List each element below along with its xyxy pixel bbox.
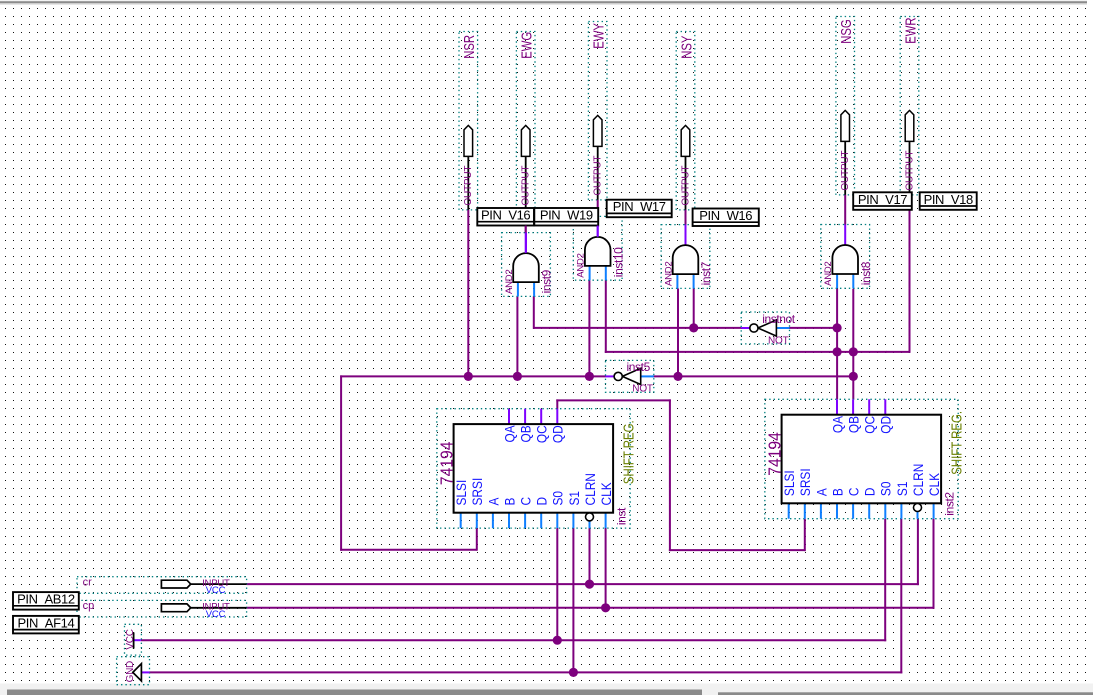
svg-text:S1: S1 (894, 482, 910, 497)
svg-text:QD: QD (550, 425, 566, 443)
svg-text:GND: GND (125, 661, 136, 682)
GND ground symbol (117, 657, 150, 685)
svg-text:QC: QC (534, 425, 550, 443)
wire net-A left drop (340, 375, 477, 550)
pin assignment label PIN_V17 (853, 192, 912, 210)
wire inst7.in2 drop (693, 289, 695, 328)
svg-text:QD: QD (878, 416, 894, 434)
pin assignment label PIN_AB12 (13, 592, 79, 610)
svg-text:PIN_V18: PIN_V18 (924, 192, 973, 207)
svg-text:CLK: CLK (598, 482, 614, 505)
output pin NSG (836, 17, 855, 195)
output pin NSR (459, 32, 478, 210)
svg-text:NSG: NSG (838, 19, 855, 44)
svg-text:cp: cp (83, 600, 95, 612)
junction at 589.5,584.1 (585, 580, 594, 589)
junction at 605.6,607.8 (601, 603, 610, 612)
svg-text:NSY: NSY (678, 35, 695, 59)
wire instnot.in (790, 327, 838, 329)
svg-text:PIN_V16: PIN_V16 (481, 208, 530, 223)
junction at 678.0,376.4 (673, 372, 682, 381)
svg-text:PIN_W16: PIN_W16 (699, 208, 752, 223)
svg-text:AND2: AND2 (576, 253, 587, 278)
svg-text:AND2: AND2 (504, 269, 515, 294)
svg-text:inst9: inst9 (540, 269, 554, 293)
svg-text:instnot: instnot (762, 312, 796, 326)
svg-text:OUTPUT: OUTPUT (904, 151, 915, 191)
svg-text:A: A (485, 497, 501, 505)
output pin EWG (516, 32, 535, 210)
pin assignment label PIN_V16 (477, 208, 534, 226)
svg-text:NOT: NOT (632, 384, 653, 395)
svg-text:OUTPUT: OUTPUT (463, 166, 474, 206)
svg-text:PIN_AB12: PIN_AB12 (17, 592, 75, 607)
svg-text:AND2: AND2 (663, 261, 674, 286)
pin assignment label PIN_W17 (607, 199, 672, 217)
svg-text:PIN_AF14: PIN_AF14 (18, 615, 75, 630)
output pin EWY (588, 22, 607, 200)
svg-text:VCC: VCC (206, 609, 226, 620)
wire cp line (247, 519, 935, 609)
AND gate inst7 (661, 225, 713, 289)
wire left CLRN drop (589, 528, 591, 584)
svg-text:inst5: inst5 (627, 360, 651, 374)
wire inst9.in1 drop (516, 296, 518, 376)
svg-text:OUTPUT: OUTPUT (593, 156, 604, 196)
wire net-C horizontal y328 (534, 327, 741, 329)
74194 shift register inst2 (765, 399, 965, 518)
svg-text:SHIFT REG.: SHIFT REG. (620, 420, 637, 484)
74194 shift register inst (437, 409, 637, 528)
svg-text:SRSI: SRSI (797, 468, 813, 496)
bottom scrollbar band (0, 684, 1093, 696)
pin assignment label PIN_V18 (920, 192, 977, 210)
svg-text:inst10: inst10 (611, 247, 625, 277)
svg-text:VCC: VCC (125, 629, 136, 649)
NOT gate instnot (741, 312, 796, 347)
svg-text:OUTPUT: OUTPUT (680, 166, 691, 206)
junction at 693.7,327.9 (689, 323, 698, 332)
junction at 837.1,351.9 (833, 347, 842, 356)
junction at 853.3,376.4 (849, 372, 858, 381)
svg-text:OUTPUT: OUTPUT (840, 151, 851, 191)
NOT gate inst5 (606, 360, 654, 395)
svg-text:inst8: inst8 (859, 261, 873, 285)
svg-text:NOT: NOT (768, 335, 789, 346)
svg-text:VCC: VCC (206, 585, 226, 596)
wire EWY vertical (597, 200, 599, 217)
svg-text:D: D (862, 487, 878, 496)
wire net-B horizontal y376 (653, 375, 854, 377)
svg-text:inst2: inst2 (943, 492, 957, 516)
junction at 557.3,640.2 (553, 636, 562, 645)
junction at 468.3,376.4 (464, 372, 473, 381)
wire NSR vertical (467, 210, 469, 377)
svg-text:B: B (829, 488, 845, 496)
svg-text:S0: S0 (550, 491, 566, 506)
svg-text:EWG: EWG (518, 32, 535, 59)
wire EWG vertical (525, 226, 527, 234)
svg-text:cr: cr (83, 576, 93, 588)
wire left S1 drop (572, 528, 574, 672)
AND gate inst10 (573, 216, 625, 280)
wire vcc line (141, 519, 886, 642)
svg-text:AND2: AND2 (823, 261, 834, 286)
svg-text:PIN_W17: PIN_W17 (613, 199, 666, 214)
svg-text:inst: inst (615, 507, 629, 525)
junction at 517.4,376.4 (513, 372, 522, 381)
junction at 837.1,327.9 (833, 323, 842, 332)
input pin cr (77, 576, 247, 596)
wire inst9.in2 drop (533, 296, 535, 329)
input pin cp (77, 600, 247, 620)
wire NSG vertical (844, 195, 846, 225)
wire net-E horizontal y352 (605, 351, 887, 353)
wire cr line (247, 519, 919, 585)
svg-text:NSR: NSR (461, 35, 478, 59)
svg-text:B: B (501, 498, 517, 506)
svg-text:inst7: inst7 (699, 261, 713, 285)
svg-text:QB: QB (846, 416, 862, 433)
svg-text:CLRN: CLRN (582, 473, 598, 505)
wire QA vertical (836, 289, 838, 400)
svg-text:S1: S1 (566, 491, 582, 506)
pin assignment label PIN_AF14 (13, 615, 79, 633)
wire gnd line (150, 519, 903, 674)
svg-text:OUTPUT: OUTPUT (521, 166, 532, 206)
AND gate inst9 (502, 233, 554, 297)
svg-text:74194: 74194 (437, 442, 457, 486)
wire EWY stub to inst10 (597, 226, 599, 237)
wire EWR vertical (887, 210, 910, 353)
svg-text:QC: QC (862, 416, 878, 434)
svg-text:C: C (518, 497, 534, 506)
output pin EWR (900, 17, 919, 195)
top window edge (0, 0, 1087, 5)
AND gate inst8 (821, 225, 873, 289)
svg-text:PIN_W19: PIN_W19 (540, 208, 593, 223)
wire NSY vertical (685, 210, 687, 225)
svg-text:QA: QA (501, 425, 517, 442)
pin assignment label PIN_W19 (534, 208, 598, 226)
wire EWG stub to inst9 (525, 226, 527, 254)
svg-text:CLRN: CLRN (910, 464, 926, 496)
wire left CLK drop (605, 528, 607, 608)
svg-text:SHIFT REG.: SHIFT REG. (948, 411, 965, 475)
junction at 589.4,376.4 (585, 372, 594, 381)
svg-text:CLK: CLK (926, 473, 942, 496)
svg-text:PIN_V17: PIN_V17 (858, 192, 907, 207)
wire inst10.in1 drop (588, 280, 590, 376)
svg-text:QA: QA (829, 416, 845, 433)
output pin NSY (676, 32, 695, 210)
wire inst7.in1 drop (677, 289, 679, 377)
junction at 853.3,351.9 (849, 347, 858, 356)
wire QB vertical (852, 289, 854, 400)
svg-text:A: A (813, 488, 829, 496)
svg-text:EWY: EWY (590, 23, 607, 49)
VCC power symbol (125, 624, 142, 655)
svg-text:C: C (846, 487, 862, 496)
svg-text:D: D (534, 497, 550, 506)
junction at 573.4,672.4 (569, 668, 578, 677)
wire inst10.in2 drop (605, 280, 607, 353)
wire left S0 drop (556, 528, 558, 640)
pin assignment label PIN_W16 (693, 208, 759, 226)
svg-text:S0: S0 (878, 482, 894, 497)
wire net-A horizontal y376 (340, 375, 605, 377)
svg-text:74194: 74194 (765, 432, 785, 476)
wire QD to SRSI2 (556, 399, 805, 551)
svg-text:EWR: EWR (902, 17, 919, 43)
svg-text:SRSI: SRSI (469, 478, 485, 506)
svg-text:QB: QB (518, 425, 534, 442)
